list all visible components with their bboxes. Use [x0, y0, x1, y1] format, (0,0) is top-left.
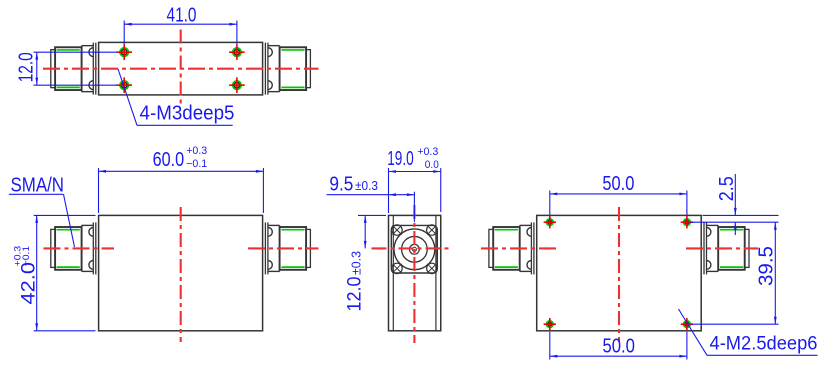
flange bolt hole bottom-right	[427, 263, 437, 273]
dimension 2.5 line	[734, 174, 737, 235]
top view body	[99, 42, 263, 95]
front view right connector centerline	[248, 247, 319, 249]
dimension 39.5 extension line	[691, 323, 779, 325]
svg-text:SMA/N: SMA/N	[11, 175, 65, 197]
dimension 50.0 bottom line	[550, 355, 687, 358]
right view right SMA connector	[704, 222, 749, 274]
dimension 60.0 text	[153, 145, 208, 171]
svg-text:4-M3deep5: 4-M3deep5	[140, 102, 235, 124]
dimension 12.0 side line	[364, 215, 367, 248]
dimension 50.0 top text	[602, 173, 634, 195]
svg-text:39.5: 39.5	[756, 246, 778, 286]
N connector pin circle	[410, 244, 420, 254]
dimension 60.0 extension lines	[99, 168, 264, 213]
flange bolt hole bottom-left	[392, 263, 402, 273]
N connector mid circle	[402, 236, 428, 262]
front view right SMA connector	[265, 222, 310, 274]
svg-text:9.5: 9.5	[329, 174, 353, 196]
svg-text:+0.3: +0.3	[417, 146, 438, 158]
svg-text:−0.1: −0.1	[186, 158, 207, 170]
svg-text:42.0: 42.0	[19, 262, 40, 305]
svg-text:50.0: 50.0	[602, 336, 635, 358]
side view horizontal centerline	[372, 247, 449, 249]
right view vertical centerline	[618, 207, 620, 342]
dimension 9.5 text	[329, 174, 378, 196]
dimension 39.5 text	[756, 246, 778, 286]
svg-text:−0.1: −0.1	[21, 246, 31, 266]
dimension 42.0 extension lines	[34, 215, 96, 330]
side view inner wall lines	[393, 215, 436, 330]
svg-text:±0.3: ±0.3	[349, 251, 364, 275]
svg-text:+0.3: +0.3	[186, 145, 207, 157]
side view body	[389, 215, 441, 330]
mounting hole top-right (M2.5)	[681, 216, 693, 228]
right view left connector centerline	[481, 247, 560, 249]
svg-text:12.0: 12.0	[16, 52, 38, 82]
top view left SMA connector	[51, 43, 96, 95]
dimension 12.0 line	[35, 52, 38, 85]
label 4-M3deep5 text	[140, 102, 235, 124]
dimension 9.5 line	[327, 193, 415, 196]
dimension 50.0 bottom extension lines	[550, 332, 687, 360]
svg-text:12.0: 12.0	[345, 277, 366, 312]
top view right SMA connector	[265, 43, 310, 95]
dimension 2.5 text	[716, 176, 738, 201]
dimension 19.0 text	[387, 146, 439, 171]
N connector outer circle	[394, 229, 435, 270]
right view left SMA connector	[489, 222, 534, 274]
dimension 60.0 line	[99, 170, 264, 173]
mounting hole top-left (M2.5)	[544, 216, 556, 228]
dimension 39.5 line	[774, 222, 777, 324]
dimension 19.0 line	[389, 170, 441, 173]
front view left connector centerline	[44, 247, 115, 249]
dimension 50.0 top extension lines	[550, 191, 687, 216]
svg-text:50.0: 50.0	[602, 173, 634, 195]
mounting hole top-left (M3)	[116, 44, 132, 60]
label SMA/N text	[11, 175, 65, 197]
right view body	[537, 215, 702, 330]
dimension 41.0 line	[124, 23, 237, 26]
svg-text:60.0: 60.0	[153, 149, 185, 171]
dimension 50.0 bottom text	[602, 336, 635, 358]
flange bolt hole top-right	[427, 225, 437, 235]
dimension 41.0 extension lines	[124, 21, 237, 45]
mounting hole bottom-left (M3)	[116, 77, 132, 93]
dimension 12.0 side extension line	[358, 214, 386, 216]
dimension 2.5 extension lines	[690, 215, 779, 222]
svg-text:0.0: 0.0	[425, 159, 439, 171]
flange bolt hole top-left	[392, 225, 402, 235]
top view vertical centerline	[180, 30, 182, 105]
dimension 12.0 extension lines	[34, 52, 118, 85]
dimension 42.0 text	[13, 246, 40, 305]
label 4-M2.5deep6 text	[710, 334, 818, 355]
mounting hole bottom-right (M3)	[229, 77, 245, 93]
svg-text:41.0: 41.0	[167, 4, 197, 26]
dimension 19.0 extension lines	[389, 168, 441, 213]
mounting hole top-right (M3)	[229, 44, 245, 60]
dimension 41.0 text	[167, 4, 197, 26]
svg-text:2.5: 2.5	[716, 176, 738, 201]
front view left SMA connector	[51, 222, 96, 274]
dimension 50.0 top line	[550, 193, 687, 196]
front view body	[99, 215, 263, 330]
N connector flange square	[391, 225, 437, 273]
right view right connector centerline	[686, 247, 758, 249]
dimension 42.0 line	[35, 215, 38, 330]
top view horizontal centerline	[43, 68, 319, 70]
dimension 12.0 side text	[345, 251, 366, 312]
svg-text:4-M2.5deep6: 4-M2.5deep6	[710, 334, 818, 355]
dimension 12.0 text	[16, 52, 38, 82]
svg-text:±0.3: ±0.3	[355, 178, 378, 193]
front view vertical centerline	[180, 207, 182, 342]
svg-text:19.0: 19.0	[387, 148, 414, 170]
N connector pin center	[412, 247, 416, 251]
mounting hole bottom-left (M2.5)	[544, 318, 556, 330]
side view vertical centerline	[413, 205, 415, 343]
dimension 9.5 extension line	[413, 192, 415, 222]
leader 4-M3deep5	[118, 69, 233, 125]
leader 4-M2.5deep6	[679, 309, 818, 355]
mounting hole bottom-right (M2.5)	[681, 318, 693, 330]
leader SMA/N	[9, 194, 75, 247]
